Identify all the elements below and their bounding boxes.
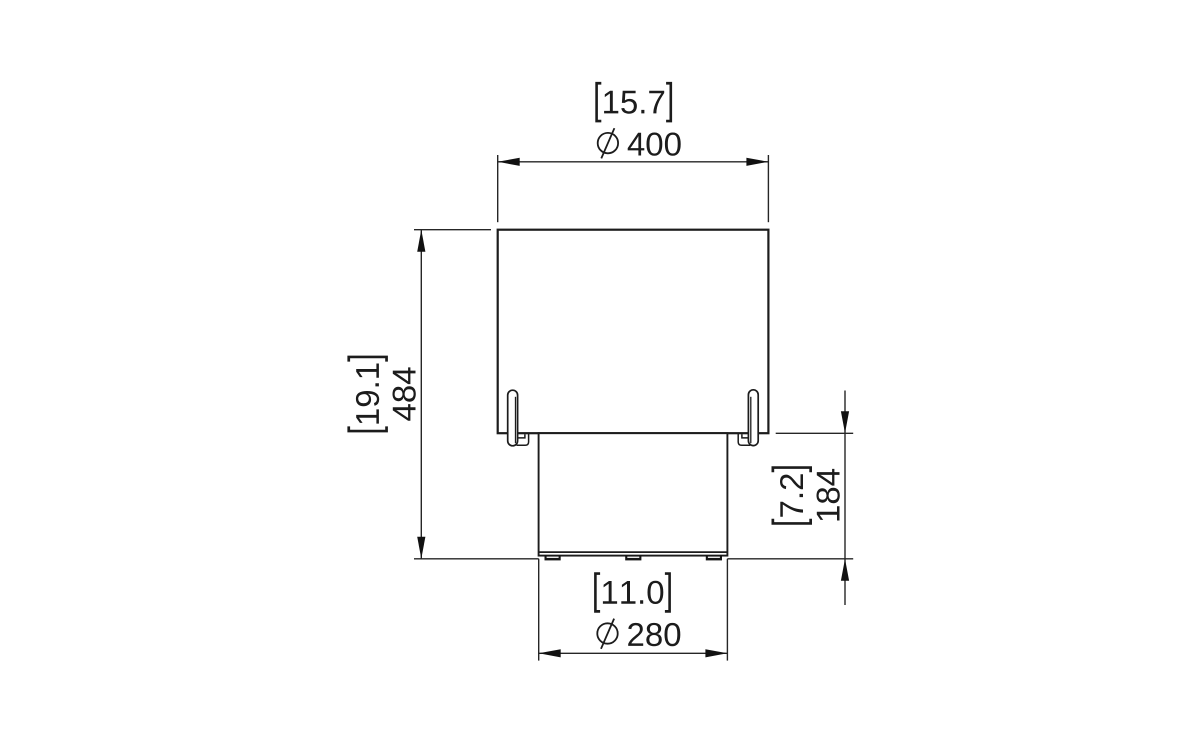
top dimension diameter symbol [598, 128, 618, 158]
bottom dimension extension line right [726, 559, 728, 661]
foot right [706, 555, 722, 560]
left dimension line [420, 230, 422, 559]
right dimension extension line bottom [727, 558, 853, 560]
left dimension text [19.1] (rotated) [347, 356, 388, 433]
right handle hook [738, 434, 750, 445]
top dimension arrow left [498, 158, 520, 166]
upper box (burner housing, front view) [498, 230, 769, 434]
right dimension line [844, 391, 846, 606]
top dimension arrow right [746, 158, 768, 166]
left dimension text 484 (rotated) [393, 367, 416, 420]
top dimension extension line left [497, 155, 499, 222]
left dimension extension line top [414, 229, 491, 231]
right dimension arrow top (outside, pointing down) [841, 411, 849, 433]
bottom dimension arrow right [705, 649, 727, 657]
top dimension text 400 [628, 133, 681, 156]
bottom dimension text [11.0] [594, 572, 671, 613]
right handle capsule [748, 390, 758, 446]
right dimension arrow bottom (outside, pointing up) [841, 559, 849, 581]
top dimension line [498, 161, 769, 163]
bottom dimension text 280 [628, 623, 680, 646]
right dimension text 184 (rotated) [817, 469, 840, 521]
right dimension text [7.2] (rotated) [772, 466, 813, 524]
lower box (base cylinder) [539, 433, 728, 555]
right dimension extension line top [776, 432, 854, 434]
top dimension extension line right [767, 155, 769, 222]
left dimension arrow top [417, 230, 425, 252]
bottom dimension diameter symbol [597, 619, 617, 649]
left dimension arrow bottom [417, 537, 425, 559]
bottom dimension line [539, 652, 728, 654]
bottom dimension arrow left [539, 649, 561, 657]
top dimension text [15.7] [595, 82, 672, 123]
foot left [545, 555, 561, 560]
foot middle [625, 555, 641, 560]
bottom dimension extension line left [538, 559, 540, 661]
left dimension extension line bottom [414, 558, 539, 560]
left handle capsule [508, 390, 518, 446]
left handle hook [517, 434, 529, 445]
base plate line [539, 551, 728, 553]
